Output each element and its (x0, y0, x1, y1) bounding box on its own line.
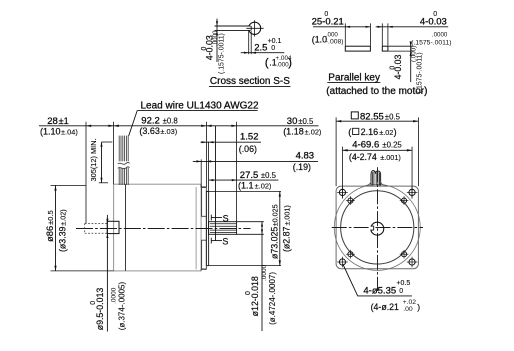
svg-text:±0.5: ±0.5 (298, 117, 314, 126)
tick 305 top (102, 141, 113, 143)
svg-text:ø9.5-0.013: ø9.5-0.013 (95, 288, 105, 331)
svg-text:0: 0 (390, 66, 397, 70)
ext line shaft left tangent (248, 31, 250, 54)
arrow 25 left (345, 26, 350, 28)
screw hole 2 (401, 198, 406, 203)
front shaft keyway mask (370, 227, 373, 230)
mounting hole 2 (409, 189, 415, 195)
label (1.0-.008) (312, 32, 344, 46)
label dia73.025 (rot) (269, 204, 279, 259)
rear boss (107, 221, 119, 233)
label (1.1+-.02) (238, 181, 271, 191)
key end view square (382, 46, 388, 51)
arrow 82.55 right (413, 120, 418, 122)
svg-text:4-ø5.35: 4-ø5.35 (363, 285, 396, 296)
cross-section centerline horizontal (246, 27, 263, 29)
svg-text:4-69.6: 4-69.6 (352, 139, 379, 150)
ext line counterbore (200, 159, 202, 187)
arrow 1.52 right (209, 141, 214, 143)
front wire grommet right (380, 181, 387, 186)
dim line 27.5 (209, 179, 279, 181)
key ext line b (369, 23, 371, 45)
arrow 27.5 left (209, 179, 214, 181)
arrow 4key right (388, 26, 393, 28)
svg-text:ø12-0.018: ø12-0.018 (250, 276, 260, 316)
svg-text:0: 0 (245, 291, 252, 295)
svg-text:2.5: 2.5 (254, 43, 267, 54)
dim line 82.55 (336, 120, 418, 122)
label (1.18+-.02) (283, 127, 321, 137)
tick 305 bottom (99, 182, 108, 184)
svg-text:0: 0 (324, 11, 328, 18)
svg-text:): ) (394, 127, 397, 137)
pilot boss (206, 191, 208, 265)
svg-text:4.83: 4.83 (296, 150, 315, 161)
keyway slot arc mask (247, 27, 251, 30)
label (1.10+-.04) (40, 126, 78, 136)
key side view rectangle (345, 46, 370, 51)
svg-text:(: ( (265, 57, 269, 69)
key ext line right bottom (389, 50, 413, 52)
svg-text:0: 0 (433, 11, 437, 18)
svg-text:27.5: 27.5 (240, 170, 258, 181)
front centerline horizontal (332, 227, 423, 229)
ext line dia73 bottom (209, 265, 281, 267)
svg-text:0: 0 (90, 301, 97, 305)
shaft (209, 222, 237, 235)
svg-text:±.001): ±.001) (282, 205, 291, 225)
front shaft keyway bottom (371, 229, 374, 231)
svg-text:(.000): (.000) (410, 46, 417, 62)
svg-text:S: S (222, 237, 228, 247)
arrow 82.55 left (336, 120, 341, 122)
arrow 30 right (231, 125, 236, 127)
arrow 25 right (366, 26, 371, 28)
key dim line horizontal (313, 26, 370, 28)
svg-text:±0.25: ±0.25 (382, 140, 402, 149)
arrow 2.5 right (251, 52, 256, 54)
front pilot circle dia73 (341, 191, 414, 264)
svg-text:30: 30 (287, 116, 298, 127)
front centerline vertical (377, 167, 379, 291)
svg-text:(.06): (.06) (239, 144, 257, 154)
mounting hole 1 (339, 189, 345, 195)
svg-text:±0.8: ±0.8 (163, 116, 178, 125)
svg-text:2.16: 2.16 (361, 127, 379, 137)
front shaft keyway bottom line (373, 226, 375, 230)
label (4-2.74) (349, 152, 401, 162)
arrow 28 left (86, 125, 91, 127)
mounting hole 1 crosshair (337, 187, 348, 198)
arrow 4.83 left (196, 160, 201, 162)
dim line 305 vertical (101, 142, 103, 183)
key ext line d (387, 23, 389, 45)
front shaft keyway top (371, 225, 374, 227)
screw hole 1 (348, 198, 353, 203)
keyway slot bottom (250, 26, 252, 30)
shaft keyway line 2 (210, 225, 237, 227)
svg-text:.0000: .0000 (110, 287, 117, 304)
ext line 69.6 right (411, 147, 413, 199)
svg-text:+.02: +.02 (403, 299, 417, 306)
dim line 4-0.03 (slot width) (216, 19, 218, 62)
svg-text:(4-ø.21: (4-ø.21 (371, 302, 399, 312)
svg-text:ø86: ø86 (45, 226, 55, 242)
rear shaft hidden bottom (85, 232, 108, 234)
svg-text:.00: .00 (403, 306, 413, 313)
svg-text:Parallel key: Parallel key (328, 72, 380, 83)
mounting hole 2 crosshair (407, 187, 418, 198)
front flange square (336, 186, 418, 269)
svg-text:±1: ±1 (59, 116, 69, 126)
label 30+-0.5 (287, 116, 314, 127)
screw hole 1 crosshair (346, 196, 355, 205)
shaft keyway line 1 (210, 223, 237, 225)
ext line slot bottom (250, 31, 252, 54)
ext line dia73 top (206, 190, 281, 192)
svg-text:±.02): ±.02) (58, 209, 67, 225)
section tick top (211, 217, 222, 219)
svg-text:±0.5: ±0.5 (261, 171, 277, 180)
front wire bundle (372, 171, 379, 185)
keyway slot side line lower / ext (215, 29, 251, 31)
dim line dia9.5 (106, 215, 108, 332)
key vertical dim line 4-0.03 (410, 42, 412, 82)
key dim line horizontal 2 (376, 26, 449, 28)
svg-text:.0000: .0000 (432, 32, 448, 39)
arrow 4 lower (216, 30, 218, 35)
svg-text:(.1575-.0011): (.1575-.0011) (218, 33, 225, 74)
arrow 4 upper (216, 21, 218, 26)
label 27.5+-0.5 (240, 170, 277, 181)
svg-text:): ) (288, 57, 292, 69)
arrow 4key left (378, 26, 383, 28)
center line (76, 228, 251, 230)
arrow 69.6 left (342, 149, 347, 151)
svg-text:(ø3.39: (ø3.39 (57, 226, 67, 252)
front wire grommet left (365, 181, 372, 186)
dim line 1.52 (201, 141, 262, 143)
section line S-S long (215, 126, 217, 241)
label (3.63+-.03) (139, 126, 177, 136)
screw hole 4 crosshair (400, 250, 409, 259)
svg-text:(ø.374-.0005): (ø.374-.0005) (118, 281, 127, 330)
svg-text:(ø2.87: (ø2.87 (281, 226, 291, 252)
key ext line right top (389, 45, 413, 47)
arrow key-h lower (410, 51, 412, 56)
dim line 2.5 (241, 52, 285, 54)
svg-text:±.03): ±.03) (160, 127, 177, 136)
arrow 92 right (201, 125, 206, 127)
svg-text:+0.5: +0.5 (396, 280, 410, 287)
svg-text:0: 0 (271, 45, 275, 52)
svg-text:305(12) MIN.: 305(12) MIN. (89, 138, 98, 181)
front body circle dia86 (334, 184, 420, 270)
svg-text:(1.1: (1.1 (238, 181, 254, 191)
front shaft circle (371, 222, 384, 235)
ext line 82.55 left (335, 117, 337, 186)
wire break wave 1 (118, 163, 130, 165)
arrow 305 bottom (100, 178, 102, 183)
label (dia2.87) (rot) (281, 205, 291, 252)
svg-text:(4-2.74: (4-2.74 (349, 152, 377, 162)
svg-text:S: S (223, 214, 229, 224)
shaft keyway line 4 (210, 231, 237, 233)
ext line shaft end (236, 122, 238, 222)
svg-text:(1.10: (1.10 (40, 126, 61, 136)
arrow 2.5 left (244, 52, 249, 54)
rear shaft hidden end (84, 224, 86, 234)
cross-section centerline vertical (254, 20, 256, 36)
ext line flange face (205, 122, 207, 187)
arrow dia73 bottom (279, 260, 281, 265)
svg-text:±.04): ±.04) (61, 127, 78, 136)
dim line 69.6 (342, 149, 412, 151)
ext line dia12 top (237, 221, 264, 223)
svg-text:92.2: 92.2 (141, 115, 160, 126)
svg-text:.000: .000 (276, 61, 289, 68)
arrow 92 left (114, 125, 119, 127)
label (4-dia.21) (371, 299, 421, 313)
svg-text:±.02: ±.02 (379, 128, 393, 137)
ext line dia12 bottom (237, 233, 264, 235)
label (dia3.39) (rot) (57, 209, 67, 252)
arrow dia12 top (261, 222, 263, 227)
arrow dia86 top (54, 185, 56, 190)
ext line dia86 bottom (51, 270, 114, 272)
dim line dia86 (55, 185, 57, 271)
dim line 4.83 (193, 160, 318, 162)
arrow 4.83 right (206, 160, 211, 162)
screw hole 2 crosshair (400, 196, 409, 205)
arrow 27.5 right (232, 179, 237, 181)
arrow dia9.5 bottom (106, 233, 108, 238)
svg-text:±0.025: ±0.025 (270, 204, 279, 226)
label (.1 +.004/.000) (265, 55, 292, 69)
svg-text:ø73.025: ø73.025 (269, 227, 279, 259)
mounting hole 4 crosshair (407, 257, 418, 268)
ext line 69.6 left (341, 147, 343, 199)
svg-text:±.001): ±.001) (380, 153, 401, 162)
title underline (209, 85, 291, 87)
lead wire label underline (137, 110, 257, 112)
arrow dia86 bottom (54, 266, 56, 271)
svg-text:(: ( (348, 127, 351, 137)
section tick top end (210, 215, 212, 221)
svg-text:(attached to the motor): (attached to the motor) (326, 86, 427, 97)
section tick bottom end (210, 238, 212, 244)
arrow dia12 bottom (261, 230, 263, 235)
flange counterbore upper (202, 188, 207, 217)
svg-text:Cross section S-S: Cross section S-S (210, 76, 290, 87)
key ext line a (344, 23, 346, 45)
arrow key-h upper (410, 41, 412, 46)
arrow 30 left (206, 125, 211, 127)
svg-text:28: 28 (47, 116, 58, 127)
motor flange inner line (195, 187, 197, 270)
svg-text:(3.63: (3.63 (139, 126, 160, 136)
svg-text:±0.5: ±0.5 (46, 210, 55, 225)
key ext line c (381, 23, 383, 45)
arrow 1.52 left (202, 141, 207, 143)
svg-text:0: 0 (399, 288, 403, 295)
arrow 28 right (108, 125, 113, 127)
motor flange outline (201, 184, 206, 271)
top dim chain line (39, 125, 319, 127)
svg-text:+0.1: +0.1 (268, 38, 282, 45)
svg-text:Lead wire UL1430 AWG22: Lead wire UL1430 AWG22 (141, 100, 259, 111)
title Parallel key underline (327, 82, 380, 84)
svg-text:±0.5: ±0.5 (385, 112, 401, 121)
ext line 82.55 right (417, 117, 419, 186)
rear shaft hidden top (85, 223, 108, 225)
svg-text:(1.0: (1.0 (312, 35, 327, 45)
ext line motor rear face (113, 122, 115, 185)
svg-text:(.19): (.19) (293, 162, 311, 172)
section tick bottom (211, 240, 222, 242)
label 4-dia5.35 (363, 280, 410, 297)
arrow 305 top (100, 142, 102, 147)
mounting hole 3 crosshair (337, 257, 348, 268)
keyway slot side line upper / ext (215, 25, 251, 27)
svg-text:.0000: .0000 (261, 264, 268, 281)
lead wire leader line (129, 111, 138, 136)
svg-text:±.02): ±.02) (255, 182, 272, 191)
svg-text:.0000: .0000 (212, 30, 219, 46)
svg-text:(ø.4724-.0007): (ø.4724-.0007) (268, 272, 277, 325)
svg-text:82.55: 82.55 (360, 111, 384, 122)
mounting hole 3 (339, 259, 345, 265)
hole leader line (343, 264, 412, 296)
lead wire bundle (119, 136, 128, 185)
label square82.55 (351, 111, 400, 122)
ext line dia86 top (51, 184, 87, 186)
dim line dia12 (261, 222, 263, 331)
mounting hole 4 (409, 259, 415, 265)
arrow dia9.5 top (106, 219, 108, 224)
dim line dia73 (279, 191, 281, 265)
svg-text:): ) (417, 302, 420, 312)
screw hole 3 crosshair (346, 250, 355, 259)
screw hole 4 (401, 252, 406, 257)
svg-text:(.1575-.0011): (.1575-.0011) (411, 39, 451, 46)
svg-text:-.008): -.008) (326, 38, 344, 45)
label 92.2+-0.8 (141, 115, 177, 126)
svg-text:±.02): ±.02) (305, 128, 322, 137)
label 4-69.6 (352, 139, 402, 150)
screw hole 3 (348, 252, 353, 257)
label (.1575-.0011) key (411, 32, 451, 47)
ext line rear-shaft end (85, 122, 87, 224)
ext line pilot face (208, 142, 210, 192)
arrow 69.6 right (407, 149, 412, 151)
arrow dia73 top (279, 191, 281, 196)
label (square2.16) (348, 127, 396, 137)
wire break wave 2 (118, 167, 130, 169)
flange counterbore lower (202, 240, 207, 269)
shaft keyway line 3 (210, 229, 237, 231)
cross-section S-S shaft circle (249, 22, 261, 34)
svg-text:1.52: 1.52 (240, 132, 259, 143)
svg-text:(1.18: (1.18 (283, 127, 304, 137)
motor body rear cap line (125, 184, 127, 271)
motor body outline (114, 184, 202, 271)
svg-text:0: 0 (201, 47, 208, 51)
front wire bundle outline (371, 171, 381, 186)
label 28+-1 (47, 116, 69, 127)
wire break mask (118, 161, 131, 168)
